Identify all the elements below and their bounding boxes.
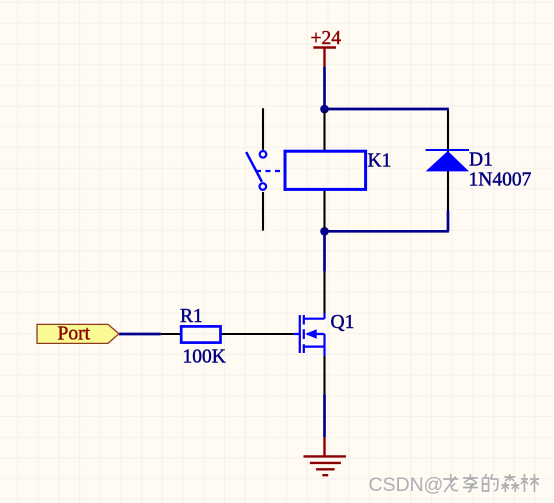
svg-text:1N4007: 1N4007: [469, 170, 532, 191]
svg-text:R1: R1: [180, 306, 203, 327]
svg-text:Q1: Q1: [331, 312, 355, 333]
svg-text:+24: +24: [311, 28, 342, 49]
svg-text:K1: K1: [368, 151, 392, 172]
svg-text:CSDN: CSDN: [369, 474, 424, 496]
svg-text:D1: D1: [469, 150, 493, 171]
svg-text:@: @: [424, 474, 444, 496]
svg-text:100K: 100K: [183, 347, 226, 368]
svg-text:Port: Port: [58, 324, 91, 345]
